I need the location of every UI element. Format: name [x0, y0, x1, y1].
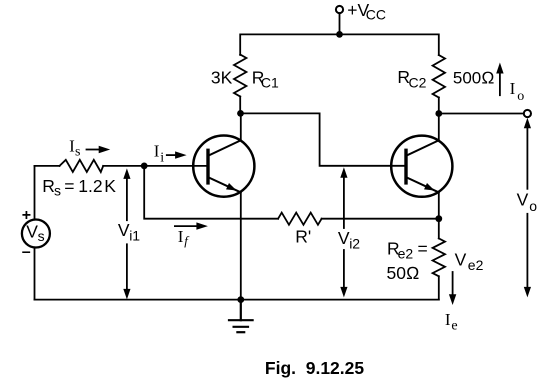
resistor RC2: [433, 55, 445, 97]
svg-text:i1: i1: [129, 228, 140, 244]
wire input left vertical: [34, 166, 36, 220]
output terminal: [524, 110, 531, 117]
junction dot feedback node: [435, 215, 442, 222]
svg-text:I: I: [445, 310, 451, 329]
svg-text:3K: 3K: [211, 67, 233, 87]
resistor Re2: [433, 238, 445, 276]
svg-text:s: s: [54, 183, 61, 199]
wire RC2 bottom: [438, 98, 440, 114]
svg-text:I: I: [510, 79, 516, 98]
svg-text:+: +: [22, 207, 31, 224]
transistor Q2: [391, 136, 452, 197]
wire feedback vertical: [144, 166, 278, 219]
wire input top: [35, 165, 60, 167]
svg-text:i: i: [160, 151, 164, 166]
svg-text:e2: e2: [468, 257, 484, 273]
arrow Io: [496, 63, 503, 96]
svg-text:=: =: [418, 238, 428, 258]
wire Re2 bottom: [438, 276, 440, 299]
arrow If: [175, 222, 208, 229]
svg-text:500Ω: 500Ω: [453, 69, 494, 88]
svg-text:CC: CC: [366, 7, 386, 23]
svg-text:I: I: [178, 227, 184, 246]
junction dot RC1/base2 node: [237, 110, 244, 117]
resistor Rs: [60, 160, 104, 172]
svg-text:K: K: [104, 176, 116, 196]
wire RC1 bottom: [239, 97, 241, 114]
svg-text:s: s: [38, 228, 45, 244]
wire top rail: [240, 34, 439, 55]
wire VCC stem: [339, 13, 341, 34]
wire output: [439, 113, 524, 115]
wire bottom ground rail: [35, 299, 439, 301]
svg-text:o: o: [529, 198, 537, 214]
arrow Vo: [524, 118, 531, 298]
junction dot input node: [141, 163, 148, 170]
svg-text:Fig. 9.12.25: Fig. 9.12.25: [265, 358, 364, 378]
svg-text:C1: C1: [261, 74, 279, 90]
svg-text:V: V: [517, 190, 529, 210]
svg-text:o: o: [517, 89, 524, 104]
ground: [229, 300, 253, 333]
source Vs: [22, 220, 50, 248]
arrow Vi1: [123, 168, 130, 299]
junction dot output node: [435, 110, 442, 117]
svg-text:e: e: [451, 319, 457, 334]
arrow Vi2: [340, 167, 347, 297]
svg-text:V: V: [455, 250, 467, 270]
svg-text:50Ω: 50Ω: [387, 263, 420, 283]
svg-text:V: V: [338, 228, 350, 248]
svg-text:e2: e2: [398, 246, 414, 262]
wire feedback right: [322, 218, 439, 220]
wire collector Q1: [240, 113, 242, 140]
svg-text:i2: i2: [349, 235, 360, 251]
svg-text:s: s: [75, 144, 80, 159]
svg-text:C2: C2: [409, 75, 427, 91]
arrow Is: [87, 146, 111, 153]
junction dot ground node: [237, 296, 244, 303]
wire emitter Q2: [438, 192, 440, 238]
wire emitter Q1 to ground rail: [240, 192, 242, 299]
svg-text:–: –: [22, 243, 31, 260]
junction dot VCC node: [336, 31, 343, 38]
arrow Ie: [449, 272, 456, 305]
svg-text:R': R': [295, 226, 311, 246]
svg-text:V: V: [26, 221, 38, 241]
svg-text:V: V: [118, 220, 130, 240]
wire interstage to Q2 base: [240, 113, 406, 165]
wire Rs to base node: [103, 165, 208, 167]
transistor Q1: [193, 136, 254, 197]
svg-text:=: =: [64, 176, 74, 196]
svg-text:1.2: 1.2: [78, 176, 102, 196]
arrow Ii: [167, 151, 187, 158]
wire Vs to ground rail: [34, 248, 36, 300]
resistor RC1: [234, 55, 246, 97]
resistor R': [278, 213, 322, 225]
wire collector Q2: [438, 114, 440, 141]
svg-text:I: I: [154, 142, 160, 161]
supply terminal +VCC: [336, 6, 343, 13]
